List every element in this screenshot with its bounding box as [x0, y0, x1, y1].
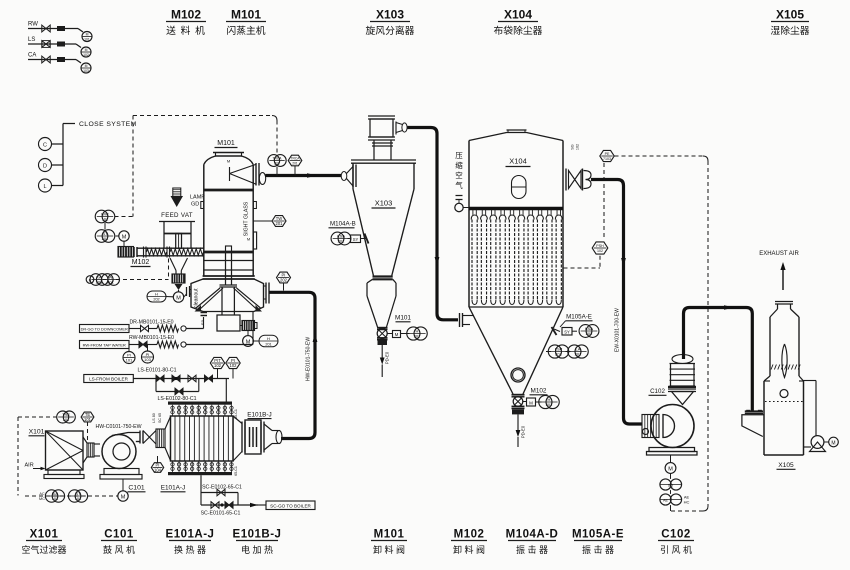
svg-text:201: 201 [338, 239, 345, 244]
svg-text:M: M [85, 48, 88, 52]
hexagon TW201 [253, 216, 286, 227]
svg-text:GD: GD [191, 202, 199, 208]
hexagon PI202 [277, 272, 291, 290]
title label C101 blower [101, 529, 137, 556]
svg-text:M105A-E: M105A-E [572, 529, 624, 541]
flow arrow down pipe [435, 257, 440, 266]
svg-text:CA: CA [28, 53, 36, 59]
svg-text:PE: PE [605, 152, 610, 156]
svg-text:M: M [529, 400, 533, 405]
svg-text:CLOSE SYSTEM: CLOSE SYSTEM [79, 121, 137, 128]
svg-text:送 料 机: 送 料 机 [166, 24, 206, 37]
motor circle M blower [118, 479, 128, 501]
svg-text:SC 65: SC 65 [158, 413, 162, 423]
spray band [771, 365, 800, 370]
svg-text:LS: LS [28, 37, 35, 43]
close-system bracket [52, 124, 76, 186]
exchanger bottom valve row [171, 461, 233, 472]
svg-text:101: 101 [84, 38, 90, 42]
motor circle M fan [665, 455, 676, 473]
filter base [44, 470, 84, 479]
cleanout text [194, 288, 200, 308]
bagfilter shell [469, 141, 563, 308]
bubble KSA201 [331, 232, 351, 245]
title label X101 air filter [21, 529, 66, 556]
label C102 on fan [649, 388, 667, 395]
svg-text:TRCA: TRCA [273, 157, 283, 161]
svg-text:201: 201 [555, 352, 562, 357]
svg-text:LAMP: LAMP [190, 195, 205, 201]
gauge PI101 [123, 345, 135, 364]
small text right bottom [234, 466, 238, 476]
filter bags [471, 210, 562, 305]
lamp arrow [171, 196, 184, 207]
svg-text:LS-E0101-80-C1: LS-E0101-80-C1 [138, 368, 177, 374]
vibrator stub cyclone [365, 234, 369, 244]
classifier braces [196, 288, 261, 310]
svg-text:M102: M102 [531, 388, 547, 395]
signal line WIC-ST [104, 223, 106, 230]
cyclone outlet head [368, 116, 395, 140]
agitator shaft [226, 246, 232, 285]
svg-text:M104A-D: M104A-D [506, 529, 559, 541]
svg-text:C: C [43, 142, 47, 148]
title label M101 flash dryer [226, 8, 266, 38]
fan discharge funnel [672, 392, 694, 405]
svg-text:M: M [247, 237, 250, 242]
svg-text:SC-E0101-65-C1: SC-E0101-65-C1 [201, 511, 241, 517]
svg-text:cleanout: cleanout [194, 288, 200, 308]
svg-text:C101: C101 [104, 529, 134, 541]
cyclone bin cone [367, 296, 396, 327]
bagfilter manhole [512, 176, 527, 199]
dashed PSH left [564, 256, 601, 268]
svg-text:X103: X103 [376, 8, 404, 22]
svg-text:M: M [122, 235, 127, 241]
dryer top flange [213, 153, 244, 157]
instrument bubble WIC101 [95, 210, 115, 223]
tank sight circle [780, 390, 788, 398]
svg-text:101: 101 [84, 417, 92, 422]
title label X103 cyclone [366, 8, 415, 38]
fan discharge flange [668, 386, 696, 392]
svg-text:PD-E0: PD-E0 [521, 425, 526, 438]
svg-text:201: 201 [575, 352, 582, 357]
text AC MC [39, 492, 45, 501]
label M102 [131, 259, 151, 267]
motor circle M pump [824, 437, 838, 447]
feeder drive motor [118, 247, 134, 258]
svg-text:M: M [85, 64, 88, 68]
svg-text:M: M [668, 466, 673, 472]
svg-text:202: 202 [153, 298, 159, 302]
box SY bagfilter [562, 328, 577, 336]
cyclone neck [372, 140, 393, 160]
svg-text:M101: M101 [374, 529, 405, 541]
svg-text:102: 102 [214, 363, 222, 368]
svg-text:RW-FROM TAP WATER: RW-FROM TAP WATER [83, 342, 126, 347]
bagfilter inlet flange [460, 313, 475, 327]
dashed PE right [615, 156, 709, 511]
svg-text:TW: TW [276, 216, 283, 221]
scrubber stack [770, 302, 799, 318]
flow arrow down to fan [621, 258, 626, 267]
hexagon PIT102 [210, 357, 224, 378]
svg-text:M: M [227, 159, 230, 164]
svg-text:空: 空 [455, 170, 463, 180]
svg-text:闪蒸主机: 闪蒸主机 [226, 24, 265, 37]
svg-text:M102: M102 [132, 259, 150, 266]
motor circle M feeder [116, 231, 130, 246]
duct label HW-C0101-750-EW [95, 424, 141, 430]
line label RW-MB0101-15-E0 [129, 335, 174, 341]
label LAMP [190, 195, 205, 208]
fan base [647, 448, 698, 456]
blower C101 scroll [102, 433, 140, 469]
flow arrow to scrubber [724, 305, 734, 309]
classifier body [191, 279, 264, 312]
bubble H301 [401, 327, 428, 340]
vibrator stub bag filter [552, 327, 561, 335]
label SC-E0102-65-C1 [202, 485, 242, 491]
svg-text:202: 202 [274, 162, 280, 166]
lamp symbol [173, 188, 181, 197]
scrubber inlet flanges [745, 410, 763, 414]
duct flex [156, 429, 165, 448]
svg-text:EXHAUST AIR: EXHAUST AIR [759, 251, 799, 257]
cyclone barrel [353, 163, 414, 189]
svg-text:引 风 机: 引 风 机 [660, 544, 692, 555]
svg-text:301: 301 [546, 402, 553, 407]
dryer lower band [204, 252, 253, 270]
LS main pipe [133, 375, 229, 382]
svg-text:201: 201 [276, 221, 284, 226]
hexagon PI102 [226, 357, 240, 378]
cone manhole [511, 368, 525, 382]
svg-text:AIR: AIR [25, 463, 34, 469]
small vert text SG102 [571, 144, 580, 150]
SC pipe upper [201, 475, 238, 505]
dryer outlet cone [230, 165, 256, 185]
heater inlet cone [233, 416, 242, 461]
svg-text:E0: E0 [200, 319, 205, 325]
svg-text:M: M [176, 295, 181, 301]
svg-text:PSH: PSH [596, 244, 604, 248]
svg-text:SY: SY [564, 329, 570, 334]
label C101 on blower [128, 485, 146, 492]
svg-text:E101B-J: E101B-J [233, 529, 282, 541]
svg-text:DR-GO TO DOWNCOMER: DR-GO TO DOWNCOMER [81, 326, 128, 331]
dryer dome [204, 156, 253, 165]
discharge arrow M101 [380, 345, 390, 377]
svg-text:101: 101 [52, 496, 59, 501]
instrument bubble ST201 [95, 230, 115, 243]
bubble HS201 [536, 395, 560, 408]
interlock bubbles EKW [86, 274, 119, 286]
dryer manhole [247, 232, 257, 249]
pipe label HW-E0101-750-EW [306, 337, 312, 381]
boxed label DR-GO TO DOWNCOMER [80, 325, 130, 333]
svg-text:旋风分离器: 旋风分离器 [366, 24, 415, 37]
svg-text:HC: HC [684, 500, 690, 505]
gas pipe bagfilter outlet [591, 180, 642, 425]
svg-text:65-C1: 65-C1 [234, 466, 238, 476]
fan interlock bubbles bottom [660, 490, 690, 511]
blower flange [140, 431, 143, 444]
screw flights [147, 249, 204, 256]
svg-text:LS-FROM BOILER: LS-FROM BOILER [89, 377, 128, 382]
label X105 under scrubber [777, 462, 796, 469]
dashed signal line WIC to loop [115, 216, 134, 218]
svg-text:102: 102 [576, 144, 580, 150]
label X103 on cyclone [372, 199, 396, 209]
cyclone outlet nozzle [393, 122, 407, 135]
feed rotary block [172, 274, 185, 283]
svg-text:RW: RW [28, 22, 38, 28]
svg-text:HW-E0101-750-EW: HW-E0101-750-EW [306, 337, 312, 381]
CLOSE SYSTEM label [79, 121, 137, 128]
cyclone inlet [341, 165, 356, 188]
svg-text:SG: SG [571, 144, 575, 150]
hexagon TRCA201 [288, 155, 302, 175]
heater flange left [242, 422, 245, 453]
classifier drain box [217, 315, 240, 331]
hexagon PI104 [151, 456, 163, 473]
svg-text:SC-E0102-65-C1: SC-E0102-65-C1 [202, 485, 242, 491]
svg-text:M104A-B: M104A-B [330, 221, 356, 228]
boxed label SC-GO TO BOILER [266, 501, 315, 510]
svg-text:X104: X104 [504, 8, 532, 22]
svg-text:M105A-E: M105A-E [566, 314, 592, 321]
classifier right flange [264, 283, 270, 304]
svg-text:202: 202 [280, 278, 288, 283]
dryer shell [204, 165, 253, 277]
duct cone joint [143, 431, 156, 445]
boxed label LS-FROM BOILER [84, 375, 134, 383]
svg-text:X104: X104 [509, 157, 527, 166]
svg-text:气: 气 [455, 180, 463, 190]
svg-text:TE: TE [85, 412, 91, 417]
valve motor box M [387, 331, 400, 338]
line label LS-E0101-80-C1 [138, 368, 177, 374]
dashed line to feed valve [116, 259, 169, 280]
fan interlock bubbles top [660, 473, 682, 490]
svg-text:C102: C102 [650, 388, 665, 395]
svg-text:H: H [267, 336, 270, 341]
bubble LA201 [566, 345, 589, 358]
title label M102 discharge valve [451, 529, 487, 556]
svg-text:卸 料 阀: 卸 料 阀 [453, 544, 485, 555]
scrubber inlet duct [742, 415, 764, 437]
svg-text:301: 301 [414, 334, 421, 339]
exhaust arrow [780, 262, 785, 290]
classifier left nozzle [184, 286, 191, 297]
classifier bottom left stub [200, 313, 207, 325]
feed drop cone [170, 258, 188, 274]
flow arrow to boiler [250, 503, 266, 507]
gas pipe dryer to cyclone [266, 174, 342, 177]
svg-text:布袋除尘器: 布袋除尘器 [494, 24, 543, 37]
svg-text:201: 201 [107, 280, 114, 285]
bagfilter outlet valve [563, 169, 591, 191]
svg-text:LS-E0102-80-C1: LS-E0102-80-C1 [158, 396, 197, 402]
fan bellows [670, 355, 696, 386]
title label X104 bag filter [494, 8, 543, 38]
SC pipe lower [201, 502, 258, 509]
rotary valve M101 [377, 328, 388, 345]
dashed signal line close-system loop [133, 116, 277, 217]
svg-text:X105: X105 [776, 8, 804, 22]
dashed PE down [603, 163, 605, 240]
cyclone dust bin [367, 279, 396, 296]
svg-text:SY: SY [353, 237, 359, 242]
filter outlet duct [83, 437, 100, 463]
dashed motor signal line [25, 495, 118, 497]
hot air pipe riser [270, 292, 316, 438]
svg-text:PI: PI [231, 358, 235, 363]
rotary valve M102 [512, 395, 525, 415]
small text right top [234, 409, 238, 419]
label M101 valve [395, 315, 411, 322]
svg-text:卸 料 阀: 卸 料 阀 [373, 544, 405, 555]
svg-text:201: 201 [102, 236, 109, 241]
bubble L [39, 179, 52, 192]
svg-text:M101: M101 [217, 140, 235, 147]
svg-text:HW-C0101-750-EW: HW-C0101-750-EW [95, 424, 141, 430]
svg-text:X105: X105 [778, 462, 794, 469]
svg-text:X101: X101 [29, 429, 45, 436]
bagfilter roof [469, 130, 563, 141]
svg-text:AC: AC [39, 492, 45, 496]
compressed air text [455, 151, 463, 190]
gauge TRE101 [57, 411, 76, 423]
air filter X101 [46, 431, 84, 470]
classifier motor [240, 321, 257, 331]
motor circle M classifier [243, 331, 254, 346]
svg-text:L: L [43, 184, 46, 190]
pipe label EW-X0101-700-EW [615, 308, 621, 352]
svg-text:D: D [43, 163, 47, 169]
svg-text:E101A-J: E101A-J [166, 529, 215, 541]
svg-text:H: H [155, 291, 158, 296]
label E101B-J [247, 412, 272, 419]
svg-text:101: 101 [75, 496, 82, 501]
svg-text:M101: M101 [395, 315, 411, 322]
bagfilter cone [469, 307, 563, 394]
svg-text:E101B-J: E101B-J [247, 412, 272, 419]
svg-text:M101: M101 [231, 8, 261, 22]
svg-text:103: 103 [83, 69, 89, 73]
scrubber column [770, 317, 799, 376]
small text LS left [152, 413, 162, 423]
label SC-E0101-65-C1 [201, 511, 241, 517]
screw conveyor tube [134, 247, 204, 258]
exchanger bottom header [168, 472, 232, 475]
gauge PI103 [142, 345, 154, 363]
shaft plate [220, 285, 238, 315]
svg-text:201: 201 [292, 162, 298, 166]
hexagon PSH102 [592, 242, 608, 254]
svg-text:101: 101 [102, 217, 109, 222]
label M104A-B [329, 221, 356, 228]
svg-text:振 击 器: 振 击 器 [582, 544, 614, 555]
label X104 inside [506, 157, 531, 167]
brace feet [195, 305, 263, 312]
svg-text:M: M [121, 494, 126, 500]
valve motor box M102 [523, 398, 536, 406]
svg-text:SC-GO TO BOILER: SC-GO TO BOILER [270, 503, 311, 508]
svg-text:C101: C101 [128, 485, 144, 492]
svg-text:M: M [395, 332, 399, 337]
heater outlet cone [264, 424, 282, 450]
label M101 on dryer [215, 140, 238, 148]
svg-text:101: 101 [126, 358, 133, 363]
svg-text:振 击 器: 振 击 器 [516, 544, 548, 555]
dryer outlet flange [256, 163, 266, 186]
exchanger top header [168, 402, 232, 405]
title label C102 induced draft fan [658, 529, 694, 556]
label X101 on filter [29, 429, 45, 436]
cyclone barrel flange [351, 160, 416, 163]
instrument bubble on LS line [81, 47, 91, 57]
svg-text:电 加 热: 电 加 热 [241, 544, 273, 555]
bubble KSA202 [579, 325, 599, 338]
cyclone bottom flange [373, 277, 393, 280]
utility line CA [28, 53, 81, 64]
sight glass text [244, 201, 250, 236]
label M102 valve [530, 388, 548, 395]
hexagon PE103 [600, 150, 614, 161]
exchanger top valve row [171, 405, 233, 416]
feed vat [159, 222, 195, 249]
svg-text:201: 201 [265, 342, 271, 346]
svg-text:LS 80: LS 80 [152, 413, 156, 422]
bubble H202 [147, 291, 173, 302]
svg-text:M102: M102 [171, 8, 201, 22]
svg-text:压: 压 [455, 151, 463, 160]
motor circle M feed valve [173, 292, 183, 302]
blower base [100, 469, 142, 480]
exhaust air label [759, 251, 799, 257]
label E101A-J [161, 485, 186, 492]
venturi core [782, 344, 787, 378]
cyclone cone [353, 189, 414, 276]
svg-text:鼓 风 机: 鼓 风 机 [103, 544, 135, 555]
dashed TE links [18, 417, 88, 496]
scrubber tank [764, 381, 804, 455]
svg-text:102: 102 [230, 363, 238, 368]
svg-text:M102: M102 [454, 529, 485, 541]
svg-text:PIT: PIT [214, 358, 221, 363]
svg-text:缩: 缩 [455, 160, 463, 170]
instrument bubble on CA line [81, 63, 91, 73]
water level dotted [765, 401, 803, 403]
RW pipe [129, 312, 253, 348]
svg-text:C102: C102 [661, 529, 691, 541]
svg-text:E101A-J: E101A-J [161, 485, 186, 492]
svg-text:X101: X101 [30, 529, 59, 541]
line label DR-MB0101-15-E0 [129, 320, 173, 326]
svg-text:MC: MC [39, 497, 45, 501]
compressed air circle [455, 203, 469, 211]
label M105A-E [560, 314, 593, 328]
svg-text:PI: PI [156, 462, 160, 467]
LS drop to exchanger [225, 379, 227, 402]
svg-text:102: 102 [597, 249, 603, 253]
feed vat label [161, 212, 193, 219]
fan scroll C102 [651, 405, 694, 448]
LS bypass pipe [156, 379, 199, 395]
